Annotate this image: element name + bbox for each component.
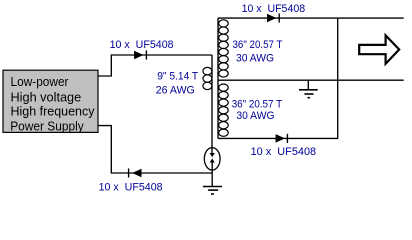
- ground G1 (bottom): [203, 187, 222, 195]
- wire right vertical (top rail to bottom rail): [337, 18, 339, 138]
- wire primary vertical: [211, 55, 213, 154]
- svg-text:26 AWG: 26 AWG: [156, 85, 195, 97]
- wire bottom rail: [218, 137, 338, 139]
- svg-text:10 x UF5408: 10 x UF5408: [242, 3, 306, 15]
- diode D2: [267, 13, 279, 22]
- wire return from box bottom output to spark gap bottom: [98, 126, 212, 173]
- transformer T1 primary coil: [203, 67, 212, 89]
- transformer T1 secondary upper coil: [219, 20, 229, 77]
- diode D1: [134, 50, 146, 59]
- wire spark gap to ground: [211, 162, 213, 187]
- svg-text:High frequency: High frequency: [11, 104, 95, 119]
- svg-text:36" 20.57 T: 36" 20.57 T: [232, 98, 283, 110]
- diode D3: [276, 134, 288, 143]
- wire top rail: [218, 17, 404, 19]
- svg-text:36" 20.57 T: 36" 20.57 T: [233, 39, 283, 51]
- diode D4 (points left): [129, 168, 142, 177]
- label secondary lower: 36" 20.57 T / 30 AWG: [232, 98, 283, 122]
- svg-text:10 x UF5408: 10 x UF5408: [251, 146, 317, 158]
- svg-text:High voltage: High voltage: [11, 89, 82, 104]
- transformer T1 secondary lower coil: [219, 84, 229, 136]
- wire from box top output to primary top: [98, 55, 212, 76]
- output arrow: [359, 35, 399, 63]
- spark gap SG1: [204, 148, 220, 170]
- svg-text:30 AWG: 30 AWG: [236, 110, 274, 122]
- ground G2 (mid rail): [299, 80, 318, 98]
- svg-text:30 AWG: 30 AWG: [236, 52, 274, 64]
- svg-text:10 x UF5408: 10 x UF5408: [99, 182, 163, 194]
- svg-text:Power Supply: Power Supply: [10, 118, 84, 133]
- power supply box PS1: [3, 70, 98, 133]
- wire mid rail (center tap): [218, 79, 404, 81]
- svg-text:9" 5.14 T: 9" 5.14 T: [157, 71, 198, 83]
- label primary: 9" 5.14 T / 26 AWG: [156, 71, 199, 97]
- svg-text:10 x UF5408: 10 x UF5408: [110, 39, 174, 51]
- label secondary upper: 36" 20.57 T / 30 AWG: [233, 39, 283, 65]
- wire secondary vertical: [217, 18, 219, 138]
- svg-text:Low-power: Low-power: [11, 74, 70, 89]
